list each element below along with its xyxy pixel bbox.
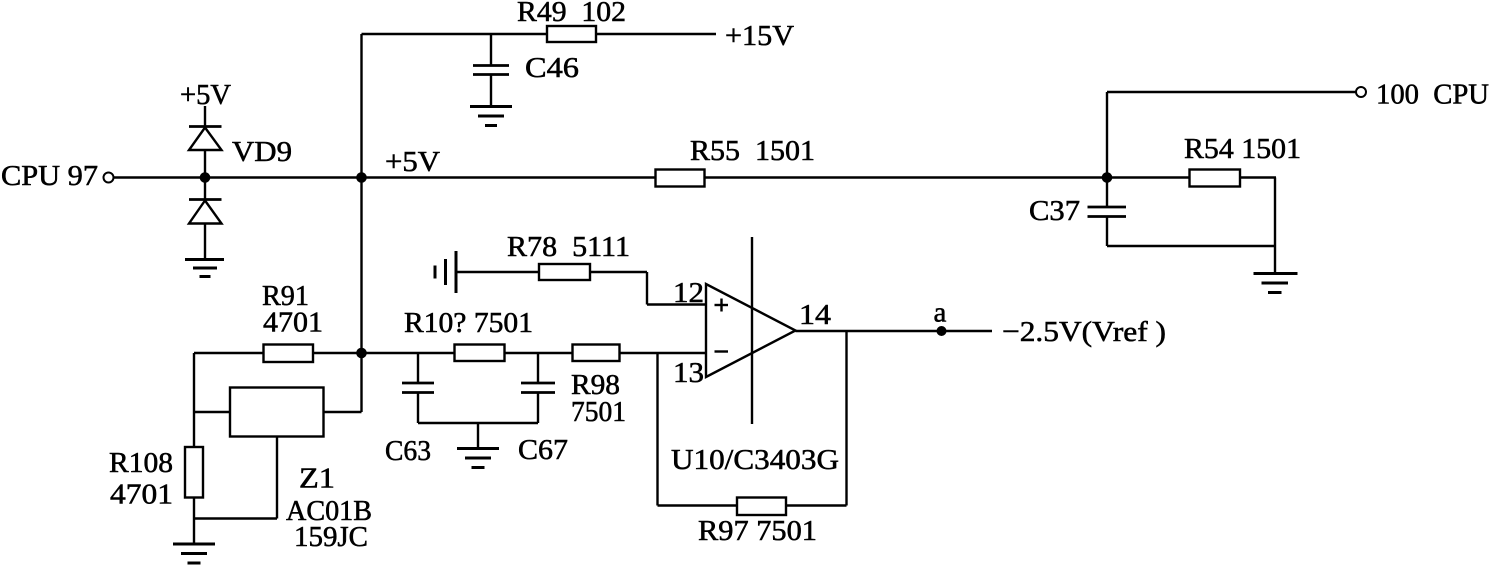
- svg-text:+15V: +15V: [725, 20, 794, 52]
- svg-text:VD9: VD9: [232, 136, 292, 168]
- svg-text:4701: 4701: [263, 307, 323, 339]
- resistor R49: [547, 26, 596, 42]
- svg-text:C63: C63: [385, 435, 431, 467]
- svg-text:Z1: Z1: [299, 463, 335, 495]
- svg-text:−2.5V(Vref ): −2.5V(Vref ): [1002, 316, 1166, 348]
- capacitor C46: [490, 34, 492, 65]
- wire Z1 bottom stem: [276, 437, 278, 519]
- svg-text:U10/C3403G: U10/C3403G: [671, 444, 839, 476]
- svg-text:159JC: 159JC: [294, 521, 368, 553]
- wire to pin 12: [647, 303, 706, 305]
- wire R108 to ground: [193, 498, 195, 545]
- wire R78 row y=272: [456, 271, 647, 273]
- svg-text:R97 7501: R97 7501: [698, 515, 817, 547]
- svg-text:R49 102: R49 102: [517, 0, 626, 28]
- svg-text:C37: C37: [1029, 195, 1080, 227]
- ground right loop: [1254, 272, 1298, 275]
- wire right loop bottom: [1107, 245, 1275, 247]
- resistor R78: [539, 264, 590, 280]
- ground below C46: [470, 105, 512, 108]
- wire right loop vertical: [1274, 178, 1276, 247]
- diode VD9 lower: [189, 198, 222, 201]
- resistor R91: [264, 345, 314, 363]
- svg-text:R78 5111: R78 5111: [507, 231, 630, 263]
- node a dot: [937, 326, 947, 336]
- svg-text:R55 1501: R55 1501: [690, 135, 815, 167]
- svg-text:a: a: [934, 297, 947, 329]
- svg-text:C46: C46: [525, 52, 579, 84]
- wire top right to 100 CPU: [1107, 91, 1356, 93]
- wire feedback bottom row: [658, 504, 847, 506]
- wire inverting input row y=353: [362, 352, 707, 354]
- op-amp plus sign: [715, 304, 729, 306]
- svg-text:R10? 7501: R10? 7501: [404, 307, 533, 339]
- node top rail junction dot: [356, 172, 367, 183]
- terminal CPU 97: [104, 173, 114, 183]
- svg-text:R108: R108: [109, 447, 173, 479]
- ground below C63 C67: [457, 447, 499, 450]
- wire feedback left vertical: [656, 353, 658, 506]
- regulator Z1 box: [230, 388, 324, 437]
- capacitor C63: [417, 353, 419, 383]
- svg-text:CPU 97: CPU 97: [1, 160, 98, 192]
- op-amp minus sign: [715, 350, 729, 352]
- capacitor C37: [1088, 206, 1127, 209]
- wire output y=331: [796, 330, 993, 332]
- resistor R97: [737, 498, 786, 516]
- svg-text:R54 1501: R54 1501: [1184, 133, 1301, 165]
- ground below VD9: [185, 258, 224, 261]
- svg-text:7501: 7501: [571, 396, 626, 428]
- wire feedback right vertical: [845, 331, 847, 506]
- wire Z1 bottom row: [194, 517, 277, 519]
- capacitor C67: [537, 353, 539, 383]
- node CPU97 junction dot: [200, 172, 211, 183]
- resistor R54: [1190, 170, 1241, 187]
- terminal 100 CPU: [1356, 87, 1366, 97]
- op-amp power line: [751, 237, 753, 424]
- wire Z1 right lead: [324, 411, 362, 413]
- svg-text:4701: 4701: [110, 479, 173, 511]
- wire ground stem right: [1274, 246, 1276, 273]
- svg-text:100 CPU: 100 CPU: [1376, 79, 1489, 111]
- wire center ground stem: [477, 423, 479, 448]
- wire right vertical x=1107: [1106, 92, 1108, 207]
- resistor R55: [656, 170, 705, 187]
- op-amp U10 triangle: [706, 284, 796, 377]
- ground below R108: [173, 543, 215, 546]
- svg-text:12: 12: [673, 277, 704, 309]
- wire diode to ground: [204, 224, 206, 260]
- wire left vertical to R108: [193, 353, 195, 447]
- wire +5V to diode: [204, 106, 206, 126]
- diode VD9 upper: [189, 125, 222, 128]
- resistor R10?: [455, 345, 505, 362]
- wire between diodes: [204, 150, 206, 199]
- wire top rail to +15V y=34: [362, 33, 717, 35]
- wire main +5V rail y=177: [114, 176, 1277, 178]
- resistor R108: [185, 447, 203, 498]
- wire R78 corner down: [646, 272, 648, 305]
- resistor R98: [573, 345, 620, 362]
- wire Z1 right lead vertical: [360, 353, 362, 412]
- node R91 junction dot: [356, 348, 367, 359]
- svg-text:+5V: +5V: [385, 146, 440, 178]
- node right rail junction dot: [1102, 172, 1113, 183]
- svg-text:C67: C67: [518, 434, 568, 466]
- wire vertical from top rail to R91 node x=361: [360, 34, 362, 354]
- wire Z1 left lead: [194, 411, 230, 413]
- ground sideways left of R78: [455, 251, 458, 293]
- svg-text:14: 14: [799, 299, 832, 331]
- wire R91 row y=353: [194, 352, 362, 354]
- wire C63 C67 bottom row: [418, 422, 538, 424]
- svg-text:13: 13: [673, 357, 704, 389]
